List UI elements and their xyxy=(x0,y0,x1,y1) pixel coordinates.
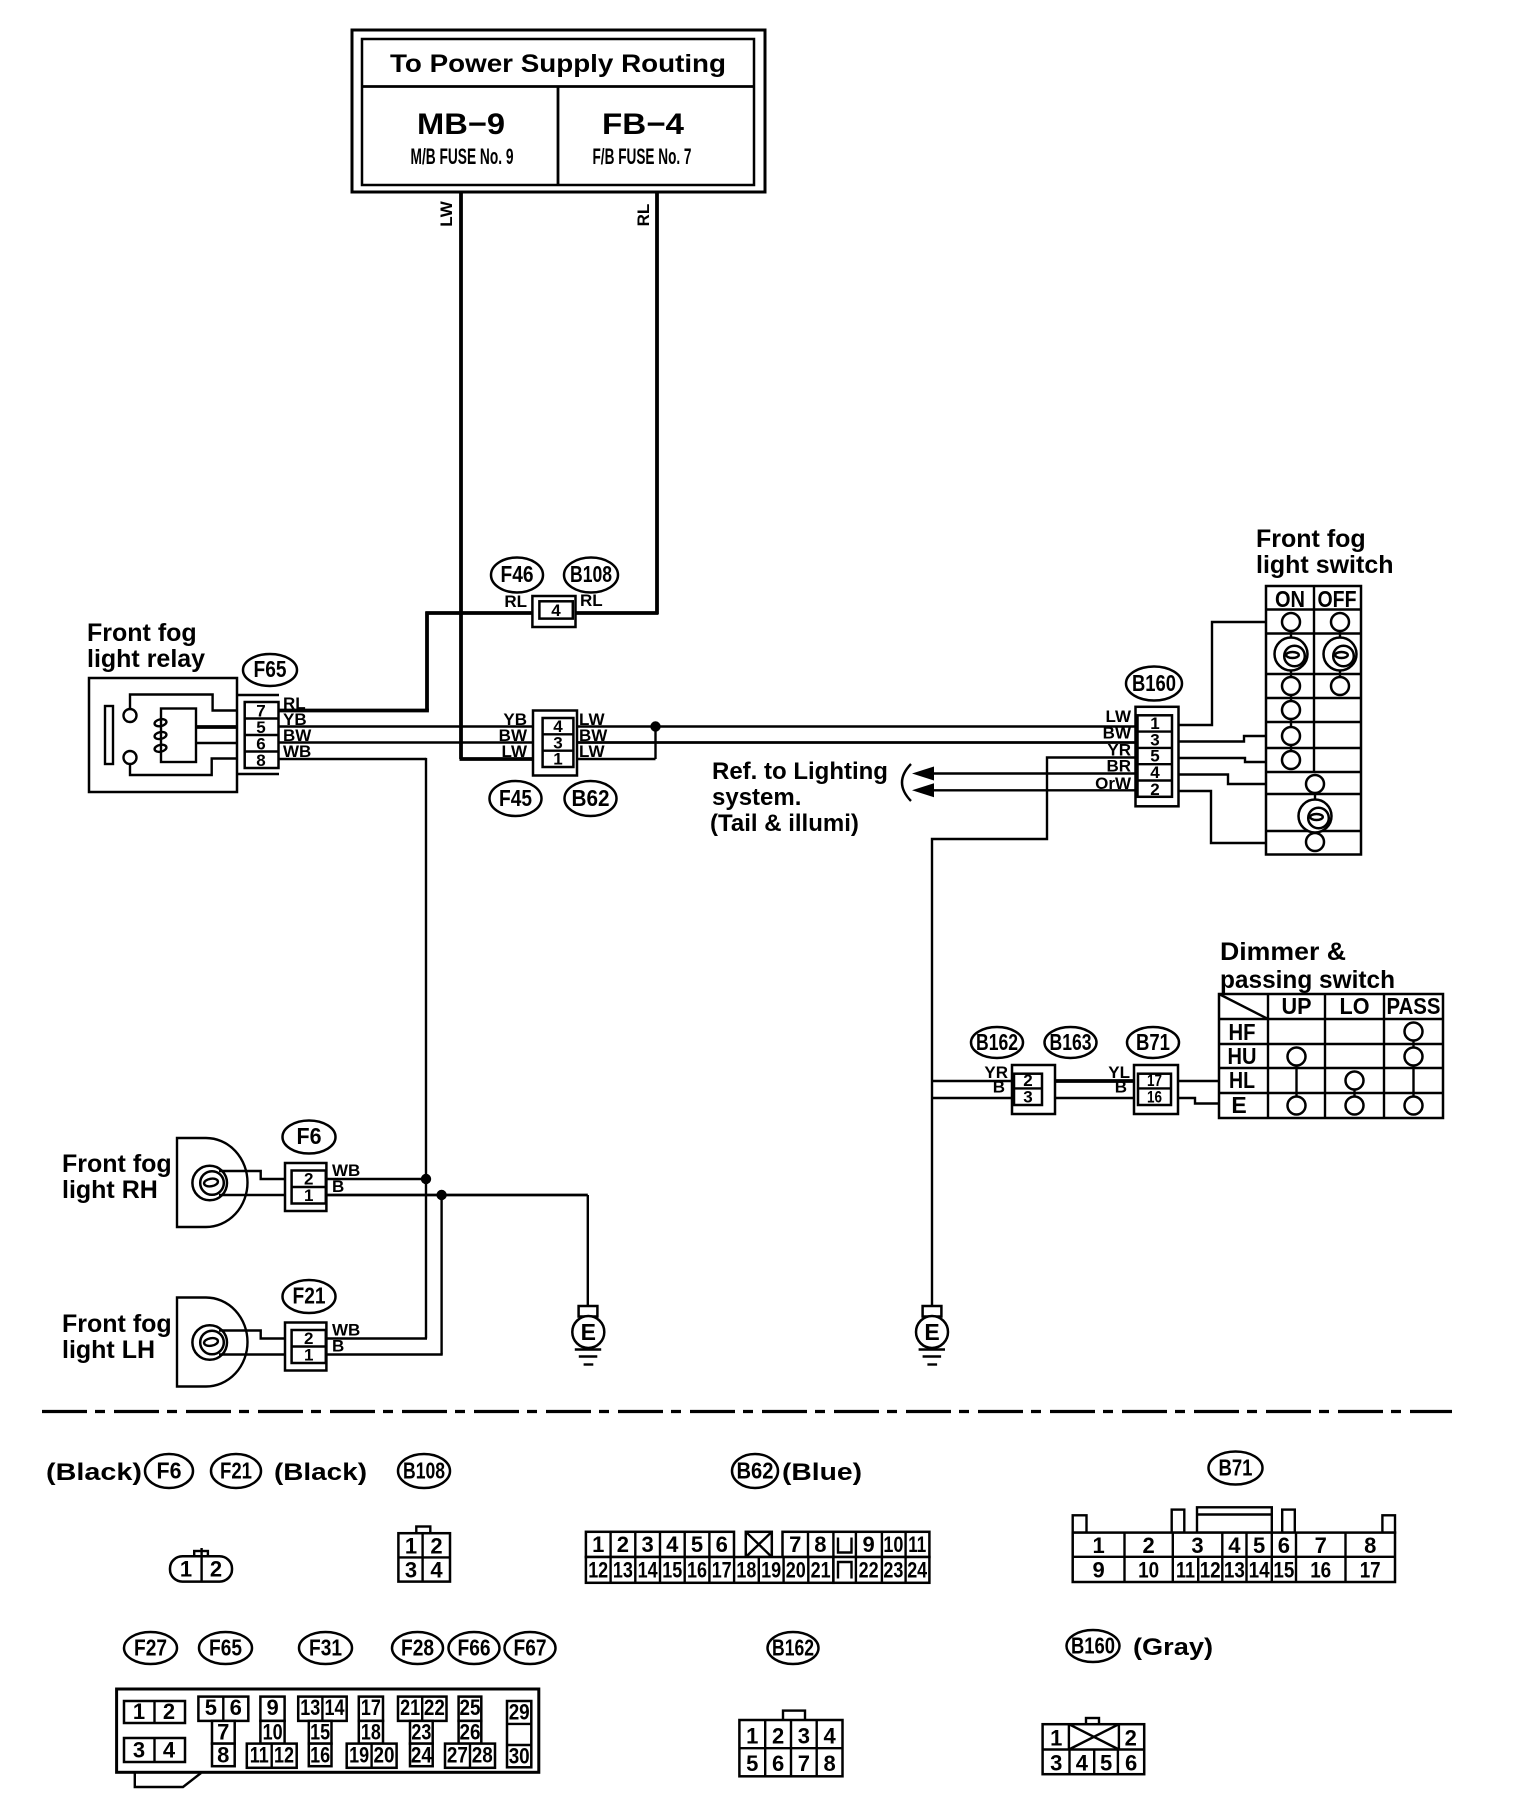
wire RL vertical drop to relay xyxy=(425,612,429,711)
B62 keyway open-bottom xyxy=(838,1562,852,1579)
svg-text:14: 14 xyxy=(1249,1558,1271,1583)
fuse 18 xyxy=(359,1720,383,1745)
connector B62 ellipse bottom xyxy=(732,1454,778,1488)
svg-text:4: 4 xyxy=(666,1532,679,1557)
connector B162/B163 joint pins 2 3 xyxy=(1012,1065,1055,1114)
svg-text:12: 12 xyxy=(274,1743,294,1768)
wire BW B160 pin3 to switch xyxy=(1179,736,1267,742)
dimmer LO contacts xyxy=(1346,1072,1364,1115)
connector F21 joint pins 2 1 xyxy=(285,1323,326,1371)
connector B108 ellipse bottom xyxy=(398,1454,450,1488)
connector F46 ellipse xyxy=(491,558,543,593)
wire LW elbow from pin1 xyxy=(577,725,656,759)
connector F45/B62 joint xyxy=(533,711,577,776)
arrow wire OrW to lighting system xyxy=(912,783,1137,797)
svg-text:8: 8 xyxy=(1364,1533,1376,1558)
power supply routing box xyxy=(352,30,765,192)
svg-text:4: 4 xyxy=(1228,1533,1241,1558)
svg-text:10: 10 xyxy=(263,1720,283,1745)
svg-text:3: 3 xyxy=(405,1558,417,1583)
svg-text:Front fog: Front fog xyxy=(62,1150,172,1178)
front fog light LH label xyxy=(62,1310,172,1364)
wire B71 pin16 to dimmer switch E xyxy=(1178,1098,1219,1104)
connector F6 ellipse bottom xyxy=(145,1454,193,1488)
svg-text:1: 1 xyxy=(746,1724,758,1749)
svg-text:UP: UP xyxy=(1282,993,1312,1019)
B71 top row pins 1-8 xyxy=(1092,1533,1376,1558)
svg-text:9: 9 xyxy=(862,1532,874,1557)
svg-text:light relay: light relay xyxy=(87,645,205,673)
svg-text:B62: B62 xyxy=(737,1458,774,1484)
connector B108 pin view xyxy=(398,1527,450,1583)
dimmer passing switch table xyxy=(1219,993,1443,1118)
svg-text:PASS: PASS xyxy=(1387,993,1441,1019)
wire YR B160 to B162 xyxy=(932,758,1137,1307)
svg-text:1: 1 xyxy=(304,1346,313,1365)
B62 keyway X xyxy=(746,1532,772,1557)
svg-text:8: 8 xyxy=(823,1751,835,1776)
fuses 27 28 xyxy=(445,1743,495,1768)
svg-text:18: 18 xyxy=(361,1720,381,1745)
svg-text:M/B FUSE No. 9: M/B FUSE No. 9 xyxy=(411,144,514,169)
svg-text:BR: BR xyxy=(1106,757,1131,776)
connector F21 ellipse xyxy=(283,1280,336,1313)
wire RH bulb to connector pin 2 xyxy=(219,1171,285,1179)
svg-text:8: 8 xyxy=(814,1532,826,1557)
svg-text:9: 9 xyxy=(1092,1558,1104,1583)
svg-text:14: 14 xyxy=(638,1558,659,1583)
dimmer UP contacts xyxy=(1288,1048,1306,1115)
svg-text:light RH: light RH xyxy=(62,1176,158,1204)
connector B163 ellipse xyxy=(1045,1027,1097,1058)
fuse FB-4 xyxy=(593,108,692,169)
svg-text:13: 13 xyxy=(613,1558,633,1583)
svg-text:F6: F6 xyxy=(157,1458,182,1484)
connector F66 ellipse xyxy=(449,1632,500,1664)
svg-text:system.: system. xyxy=(712,784,801,811)
svg-text:3: 3 xyxy=(133,1738,145,1763)
svg-text:17: 17 xyxy=(361,1695,381,1720)
svg-text:20: 20 xyxy=(786,1558,806,1583)
svg-text:20: 20 xyxy=(374,1743,395,1768)
switch OFF column contacts xyxy=(1331,613,1349,695)
svg-text:3: 3 xyxy=(798,1724,810,1749)
connector F46/B108 joint, pin 4 xyxy=(532,596,575,627)
svg-text:ON: ON xyxy=(1275,586,1305,612)
svg-text:MB−9: MB−9 xyxy=(417,108,505,141)
wire LW B160 pin1 to switch xyxy=(1179,622,1267,725)
switch ON illumination lamp xyxy=(1275,638,1308,671)
connector F67 ellipse xyxy=(505,1632,556,1664)
fuses 13 14 xyxy=(298,1695,347,1721)
fuse 17 xyxy=(359,1695,383,1721)
fuses 11 12 xyxy=(247,1743,297,1768)
front fog light relay label xyxy=(87,619,205,673)
wire RL horizontal right of B108 xyxy=(576,611,659,615)
svg-text:B160: B160 xyxy=(1071,1633,1115,1659)
svg-text:E: E xyxy=(1231,1092,1246,1118)
junction node WB xyxy=(421,1174,431,1184)
svg-text:5: 5 xyxy=(1253,1533,1265,1558)
relay wire upper contact to pin 7 xyxy=(130,695,237,711)
svg-text:F/B FUSE No. 7: F/B FUSE No. 7 xyxy=(593,144,692,169)
svg-text:8: 8 xyxy=(217,1743,229,1768)
fuse box F27/F65/F31/F28/F66/F67 outline xyxy=(117,1689,539,1787)
connector B71 ellipse bottom xyxy=(1209,1452,1263,1485)
B62 pins 7 8 keyway 9 10 11 xyxy=(783,1532,930,1557)
wire WB F6 to junction xyxy=(326,1178,426,1180)
svg-text:21: 21 xyxy=(811,1558,831,1583)
ground E fog lights xyxy=(572,1195,604,1365)
wire YL B162 to B71 xyxy=(1055,1079,1134,1083)
svg-text:To Power Supply Routing: To Power Supply Routing xyxy=(390,50,726,78)
wire LW vertical from MB-9 xyxy=(437,192,461,759)
svg-text:2: 2 xyxy=(210,1557,222,1582)
svg-text:3: 3 xyxy=(1023,1088,1032,1107)
switch OFF illumination lamp xyxy=(1324,638,1357,671)
front fog light RH bulb xyxy=(192,1166,227,1201)
svg-text:light switch: light switch xyxy=(1256,551,1394,579)
svg-text:(Black): (Black) xyxy=(46,1459,142,1486)
svg-text:11: 11 xyxy=(1176,1558,1195,1583)
svg-text:E: E xyxy=(924,1319,939,1345)
wire B from B162 pin 3 xyxy=(932,1097,1012,1099)
svg-text:3: 3 xyxy=(1191,1533,1203,1558)
svg-text:OrW: OrW xyxy=(1095,774,1132,793)
wire B vertical to LH xyxy=(440,1195,442,1355)
separator dashed line xyxy=(42,1410,1452,1413)
svg-text:RL: RL xyxy=(580,591,603,610)
svg-text:1: 1 xyxy=(592,1532,604,1557)
wire LH bulb to connector pin 2 xyxy=(219,1331,285,1339)
svg-text:(Tail & illumi): (Tail & illumi) xyxy=(710,810,859,837)
svg-text:2: 2 xyxy=(1142,1533,1154,1558)
svg-text:13: 13 xyxy=(1224,1558,1245,1583)
fuse 7 xyxy=(212,1720,235,1745)
B71 bottom row pins 9-17 xyxy=(1092,1557,1380,1583)
wire YR into B162 pin 2 xyxy=(932,1080,1012,1082)
svg-text:16: 16 xyxy=(310,1743,330,1768)
svg-text:LO: LO xyxy=(1340,993,1370,1019)
svg-text:F66: F66 xyxy=(458,1635,491,1661)
connector B162 pin view xyxy=(739,1711,842,1777)
svg-text:8: 8 xyxy=(256,751,265,770)
svg-text:5: 5 xyxy=(1100,1751,1112,1776)
B62 pins 12-21 xyxy=(586,1557,834,1583)
wire WB relay pin 8 xyxy=(279,758,427,760)
svg-text:4: 4 xyxy=(163,1738,176,1763)
svg-text:F65: F65 xyxy=(209,1635,242,1661)
svg-text:27: 27 xyxy=(447,1743,468,1768)
svg-text:23: 23 xyxy=(883,1558,903,1583)
dimmer PASS contacts xyxy=(1405,1023,1423,1115)
fuses 19 20 xyxy=(347,1743,397,1768)
svg-text:(Black): (Black) xyxy=(274,1459,367,1486)
svg-text:B160: B160 xyxy=(1132,670,1176,696)
svg-text:1: 1 xyxy=(1050,1726,1062,1751)
svg-text:13: 13 xyxy=(300,1695,320,1720)
connector B160 ellipse xyxy=(1126,667,1182,701)
svg-text:29: 29 xyxy=(509,1700,530,1725)
connector B160 joint pins 1 3 5 4 2 xyxy=(1136,707,1179,807)
connector B71 ellipse xyxy=(1127,1027,1179,1058)
svg-text:30: 30 xyxy=(509,1744,530,1769)
svg-text:B62: B62 xyxy=(572,785,610,811)
svg-text:1: 1 xyxy=(180,1557,192,1582)
svg-text:23: 23 xyxy=(411,1720,431,1745)
svg-text:5: 5 xyxy=(205,1695,217,1720)
svg-text:F21: F21 xyxy=(293,1283,326,1309)
connector B160 ellipse bottom xyxy=(1067,1630,1120,1662)
connector F65 ellipse bottom xyxy=(199,1632,252,1664)
connector B71 pin view xyxy=(1073,1507,1395,1582)
fuse 9 xyxy=(260,1695,284,1721)
connector F21 ellipse bottom xyxy=(211,1454,261,1488)
svg-text:B71: B71 xyxy=(1136,1029,1170,1055)
svg-text:B162: B162 xyxy=(976,1029,1018,1055)
svg-text:6: 6 xyxy=(716,1532,728,1557)
front fog light LH bulb xyxy=(192,1325,227,1360)
wire B71 pin17 to dimmer switch HL xyxy=(1178,1080,1219,1082)
svg-text:22: 22 xyxy=(424,1695,445,1720)
svg-text:F28: F28 xyxy=(401,1635,434,1661)
wire RL horizontal left of B108 xyxy=(426,611,533,615)
svg-text:RL: RL xyxy=(634,204,653,227)
svg-text:15: 15 xyxy=(662,1558,682,1583)
svg-text:B163: B163 xyxy=(1050,1029,1092,1055)
svg-text:5: 5 xyxy=(746,1751,758,1776)
svg-text:2: 2 xyxy=(430,1534,442,1559)
svg-text:10: 10 xyxy=(883,1532,903,1557)
connector F31 ellipse xyxy=(299,1632,352,1664)
relay upper contact xyxy=(124,709,137,722)
fuses 29 30 xyxy=(507,1700,531,1769)
svg-text:4: 4 xyxy=(823,1724,836,1749)
dimmer and passing switch label xyxy=(1220,938,1395,994)
svg-text:(Gray): (Gray) xyxy=(1133,1634,1213,1661)
svg-text:2: 2 xyxy=(617,1532,629,1557)
svg-text:2: 2 xyxy=(1150,780,1159,799)
connector B108 ellipse xyxy=(564,558,618,593)
svg-text:3: 3 xyxy=(1050,1751,1062,1776)
svg-text:2: 2 xyxy=(163,1699,175,1724)
svg-text:2: 2 xyxy=(1125,1726,1137,1751)
wire RH bulb to connector pin 1 xyxy=(219,1194,292,1196)
connector B160 pin view xyxy=(1043,1718,1145,1776)
svg-text:B: B xyxy=(993,1078,1005,1097)
relay wire lower contact to pin 8 xyxy=(130,759,237,776)
fuse 15 xyxy=(309,1720,332,1745)
wire B B162 to B71 xyxy=(1055,1097,1134,1099)
svg-text:HU: HU xyxy=(1228,1043,1257,1069)
svg-text:19: 19 xyxy=(761,1558,781,1583)
svg-text:Ref. to Lighting: Ref. to Lighting xyxy=(712,758,888,785)
svg-text:F21: F21 xyxy=(220,1458,252,1484)
switch lower contacts xyxy=(1306,775,1324,851)
front fog light LH lamp body xyxy=(177,1298,248,1387)
wire RL vertical from FB-4 xyxy=(634,192,657,614)
svg-text:7: 7 xyxy=(798,1751,810,1776)
svg-text:E: E xyxy=(581,1319,596,1345)
wire LH bulb to connector pin 1 xyxy=(219,1353,292,1355)
junction node LW xyxy=(650,721,660,731)
front fog light switch table xyxy=(1266,586,1361,855)
svg-text:9: 9 xyxy=(266,1695,278,1720)
switch lower illumination lamp xyxy=(1299,800,1332,833)
svg-text:FB−4: FB−4 xyxy=(602,108,684,141)
svg-text:17: 17 xyxy=(1360,1558,1381,1583)
fuse MB-9 xyxy=(411,108,514,169)
svg-text:Front fog: Front fog xyxy=(1256,525,1366,553)
relay lower contact xyxy=(124,751,137,764)
svg-text:light LH: light LH xyxy=(62,1336,155,1364)
svg-text:24: 24 xyxy=(411,1743,433,1768)
relay pins 7 5 6 8 xyxy=(245,702,279,771)
svg-text:1: 1 xyxy=(304,1186,313,1205)
wire LW long to B160 xyxy=(577,725,1137,727)
svg-text:F45: F45 xyxy=(499,785,532,811)
connector F6 joint pins 2 1 xyxy=(285,1163,326,1211)
svg-text:1: 1 xyxy=(405,1534,417,1559)
arrow wire BR to lighting system xyxy=(912,767,1137,781)
svg-text:7: 7 xyxy=(789,1532,801,1557)
ground E dimmer circuit xyxy=(916,1306,948,1365)
svg-text:OFF: OFF xyxy=(1318,586,1357,612)
B62 keyway open-top xyxy=(838,1538,852,1553)
wire WB F21 to vertical xyxy=(326,1337,427,1339)
svg-text:HL: HL xyxy=(1229,1067,1255,1093)
svg-text:1: 1 xyxy=(133,1699,145,1724)
svg-text:16: 16 xyxy=(1310,1558,1331,1583)
svg-text:B108: B108 xyxy=(403,1458,445,1484)
connector B62 ellipse xyxy=(565,781,617,816)
B62 pins 22 23 24 xyxy=(833,1557,929,1583)
svg-text:15: 15 xyxy=(1273,1558,1294,1583)
svg-text:Front fog: Front fog xyxy=(62,1310,172,1338)
svg-text:RL: RL xyxy=(504,592,527,611)
svg-text:4: 4 xyxy=(1150,763,1160,782)
connector F65 ellipse xyxy=(243,654,297,686)
connector B62 pin view xyxy=(586,1532,734,1557)
front fog light RH label xyxy=(62,1150,172,1204)
relay core bar xyxy=(105,706,113,764)
svg-text:22: 22 xyxy=(859,1558,879,1583)
svg-text:LW: LW xyxy=(502,742,528,761)
front fog light RH lamp body xyxy=(177,1138,248,1227)
wire BW long to B160 xyxy=(577,741,1137,744)
wire OrW B160 pin2 to switch xyxy=(1179,791,1267,843)
svg-text:Dimmer &: Dimmer & xyxy=(1220,938,1346,966)
svg-text:16: 16 xyxy=(1147,1088,1162,1107)
wire B F6 to ground xyxy=(326,1194,587,1197)
svg-text:6: 6 xyxy=(230,1695,242,1720)
svg-text:16: 16 xyxy=(687,1558,707,1583)
connector B162 ellipse xyxy=(971,1027,1023,1058)
svg-text:Front fog: Front fog xyxy=(87,619,197,647)
svg-text:1: 1 xyxy=(1092,1533,1104,1558)
svg-text:passing switch: passing switch xyxy=(1220,966,1395,994)
svg-text:15: 15 xyxy=(310,1720,330,1745)
connector F28 ellipse xyxy=(392,1632,443,1664)
svg-text:F27: F27 xyxy=(134,1635,167,1661)
fuse 16 xyxy=(309,1743,332,1768)
svg-text:10: 10 xyxy=(1138,1558,1159,1583)
svg-text:4: 4 xyxy=(551,601,561,620)
svg-text:LW: LW xyxy=(437,200,456,226)
svg-text:4: 4 xyxy=(1076,1751,1089,1776)
fuses 3 4 xyxy=(124,1738,185,1763)
svg-text:24: 24 xyxy=(907,1558,928,1583)
wire B F21 to vertical xyxy=(326,1353,442,1355)
svg-text:25: 25 xyxy=(460,1695,481,1720)
svg-text:F6: F6 xyxy=(297,1123,322,1149)
svg-text:12: 12 xyxy=(1200,1558,1221,1583)
svg-text:11: 11 xyxy=(250,1743,269,1768)
fuse 26 xyxy=(459,1720,482,1745)
fuses 21 22 xyxy=(398,1695,447,1721)
relay F65 body xyxy=(89,678,237,792)
fuse 23 xyxy=(410,1720,433,1745)
connector F27 ellipse xyxy=(124,1632,177,1664)
svg-text:1: 1 xyxy=(553,750,562,769)
svg-text:18: 18 xyxy=(736,1558,756,1583)
svg-text:7: 7 xyxy=(1315,1533,1327,1558)
front fog light switch label xyxy=(1256,525,1394,579)
svg-text:F65: F65 xyxy=(254,656,287,682)
relay coil xyxy=(154,709,237,763)
wire RL into relay pin 7 xyxy=(279,709,429,713)
connector B71 joint pins 17 16 xyxy=(1134,1065,1178,1114)
fuse 25 xyxy=(459,1695,482,1721)
svg-text:6: 6 xyxy=(1125,1751,1137,1776)
svg-text:4: 4 xyxy=(430,1558,443,1583)
relay connector bracket xyxy=(238,694,279,696)
fuse 24 xyxy=(410,1743,433,1768)
ref to lighting system note xyxy=(710,758,888,837)
svg-text:B71: B71 xyxy=(1219,1455,1253,1481)
svg-text:12: 12 xyxy=(588,1558,608,1583)
svg-text:F46: F46 xyxy=(501,561,534,587)
svg-text:B162: B162 xyxy=(772,1635,814,1661)
svg-text:2: 2 xyxy=(772,1724,784,1749)
wire YR B160 pin5 to switch xyxy=(1179,758,1267,762)
connector F45 ellipse xyxy=(490,781,542,816)
svg-text:14: 14 xyxy=(325,1695,346,1720)
wire LW into B62 pin 1 xyxy=(460,757,534,761)
wire YB relay to F45 xyxy=(279,725,534,727)
svg-text:17: 17 xyxy=(712,1558,732,1583)
connector F6/F21 pin view xyxy=(170,1548,232,1582)
fuse 8 xyxy=(212,1743,235,1768)
svg-text:11: 11 xyxy=(908,1532,926,1557)
svg-text:3: 3 xyxy=(641,1532,653,1557)
svg-text:(Blue): (Blue) xyxy=(782,1459,862,1486)
svg-text:19: 19 xyxy=(349,1743,369,1768)
svg-text:6: 6 xyxy=(772,1751,784,1776)
svg-text:B: B xyxy=(1115,1078,1127,1097)
switch ON column contacts xyxy=(1282,613,1300,769)
svg-text:B108: B108 xyxy=(570,561,612,587)
svg-text:28: 28 xyxy=(472,1743,493,1768)
svg-text:5: 5 xyxy=(691,1532,703,1557)
junction node B xyxy=(436,1190,446,1200)
fuse 10 xyxy=(260,1720,284,1745)
fuses 5 6 xyxy=(198,1695,248,1721)
svg-text:26: 26 xyxy=(460,1720,481,1745)
svg-text:HF: HF xyxy=(1229,1019,1256,1045)
wire BR B160 pin4 to switch xyxy=(1179,775,1267,785)
fuses 1 2 xyxy=(124,1699,185,1724)
